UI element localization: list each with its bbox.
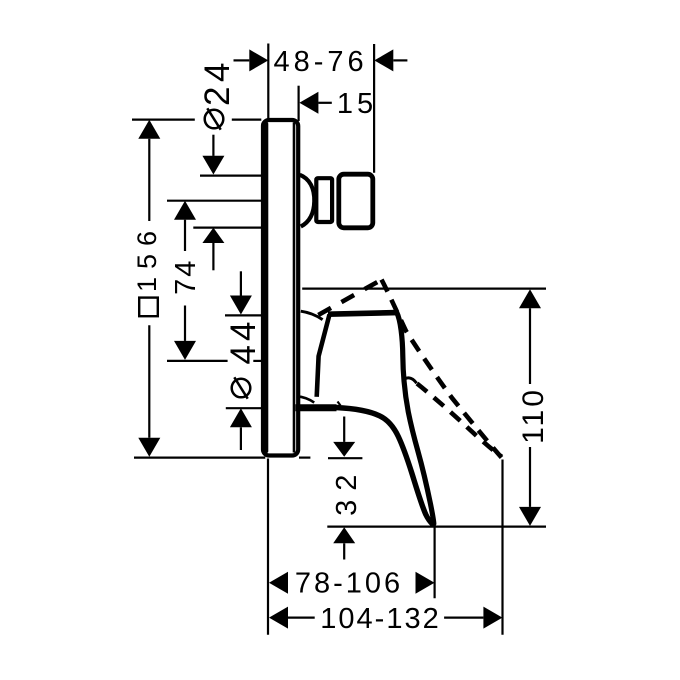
dim 110 line lower	[529, 447, 531, 507]
label d24 rotated	[198, 58, 237, 130]
dim d44 line lower	[240, 427, 242, 450]
arrow d24 up	[202, 228, 224, 243]
arrow 15	[299, 92, 318, 114]
extension line lever tip bottom	[434, 527, 436, 599]
label d44 rotated	[224, 318, 263, 399]
arrow 110 top	[519, 289, 541, 308]
knob head cylinder	[339, 174, 373, 228]
extension line wall bottom	[267, 459, 269, 635]
knob bell adapter	[300, 175, 315, 227]
handle hub bottom bar	[296, 404, 337, 411]
dashed raised lever lower edge	[417, 384, 502, 457]
escutcheon plate outline	[263, 120, 298, 456]
svg-text:32: 32	[331, 466, 363, 516]
svg-text:15: 15	[337, 88, 377, 120]
dim 15 tail	[318, 102, 331, 104]
arrow 104-132 left	[269, 607, 288, 629]
handle hub bottom collar arc	[297, 396, 315, 402]
arrow 78-106 left	[269, 572, 288, 594]
lever pivot arc	[403, 378, 417, 383]
handle hub top edge	[328, 313, 397, 315]
arrow d44 down	[230, 296, 252, 315]
dim d44 line upper	[240, 271, 242, 295]
escutcheon plate inner front line	[293, 123, 296, 453]
dim 48-76 right tail	[393, 59, 407, 61]
arrow 48-76 left	[249, 49, 268, 71]
svg-text:24: 24	[198, 58, 237, 106]
ref line plate bottom	[134, 457, 265, 459]
ref line 32 top stub	[328, 457, 362, 459]
dim 156 line lower	[148, 325, 150, 438]
label 156 square symbol	[139, 298, 158, 317]
svg-text:48-76: 48-76	[274, 46, 368, 78]
dim 32 line upper	[343, 417, 345, 442]
dim 110 line upper	[529, 308, 531, 384]
dim 104-132 left tail	[288, 616, 315, 618]
handle hub right edge and lever right edge	[397, 313, 434, 524]
knob neck cylinder	[316, 178, 332, 222]
svg-text:78-106: 78-106	[295, 567, 403, 599]
dim 74 line upper	[184, 220, 186, 251]
arrow 74 top	[174, 201, 196, 220]
ref line hub bottom	[226, 407, 262, 409]
ref line hub top	[225, 314, 262, 316]
dim 156 line upper	[148, 139, 150, 221]
ref line lever tip level	[327, 525, 546, 527]
arrow 104-132 right	[483, 607, 502, 629]
dim 48-76 left tail	[234, 59, 250, 61]
extension line knob front (48-76 right)	[373, 44, 375, 173]
dim 32 line lower	[343, 543, 345, 559]
handle hub left edge	[317, 314, 330, 396]
arrow 32 down	[333, 442, 355, 457]
dim 74 line lower	[184, 306, 186, 341]
handle joint tick	[338, 402, 341, 406]
ref line knob top	[200, 175, 261, 177]
dim 104-132 right tail	[444, 616, 483, 618]
lever left edge	[336, 408, 433, 525]
svg-text:104-132: 104-132	[320, 603, 440, 635]
handle hub top collar arc	[301, 311, 323, 319]
ref line plate top right	[232, 118, 261, 120]
arrow 74 bottom	[174, 341, 196, 360]
dashed raised handle top edge	[318, 280, 381, 315]
arrow 32 up	[333, 527, 355, 543]
ref line plate top left	[132, 118, 195, 120]
dim d24 line lower	[212, 243, 214, 270]
escutcheon plate thick wall-side edge	[261, 122, 268, 453]
arrow d44 up	[230, 408, 252, 427]
ref line knob axis	[167, 200, 261, 202]
ref line knob bottom	[193, 227, 261, 229]
svg-text:74: 74	[170, 259, 202, 295]
dim d24 line upper	[212, 135, 214, 156]
svg-text:156: 156	[132, 223, 162, 292]
arrow 78-106 right	[416, 572, 435, 594]
arrow 156 top	[138, 120, 160, 139]
arrow 156 bottom	[138, 438, 160, 457]
ref line 110 top	[302, 288, 546, 290]
extension line plate front (15 left)	[298, 86, 300, 121]
arrow d24 down	[202, 156, 224, 175]
ref line handle axis left	[167, 360, 228, 362]
extension line wall top (48-76 left)	[267, 44, 269, 119]
arrow 110 bottom	[519, 507, 541, 526]
dashed raised lever upper edge	[382, 280, 502, 458]
svg-text:44: 44	[224, 318, 263, 365]
extension line dashed tip bottom	[501, 460, 503, 635]
ref line handle axis right	[253, 360, 261, 362]
arrow 48-76 right	[374, 49, 393, 71]
svg-text:110: 110	[517, 387, 550, 444]
